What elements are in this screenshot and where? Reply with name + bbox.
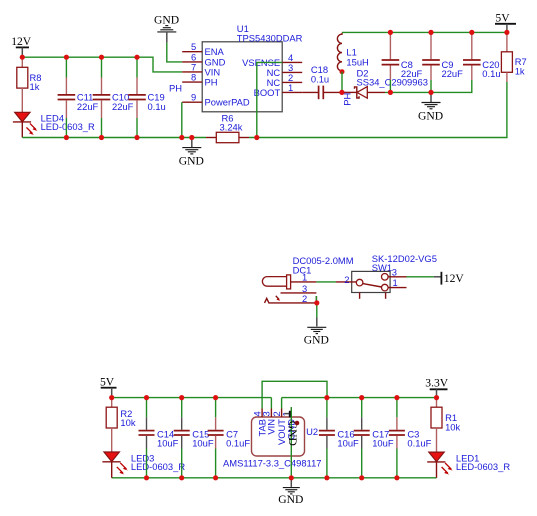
svg-text:1k: 1k <box>30 81 40 92</box>
resistor R2 <box>106 398 136 452</box>
U2 pin 4 TAB <box>251 409 267 437</box>
svg-text:GND: GND <box>179 154 204 167</box>
wire U2 VOUT up <box>281 398 283 409</box>
svg-text:2: 2 <box>302 293 307 304</box>
capacitor C3 <box>389 398 432 478</box>
wire VSENSE rail to R7 <box>249 82 507 138</box>
svg-text:12V: 12V <box>11 35 32 48</box>
svg-text:2: 2 <box>344 274 349 285</box>
svg-text:BOOT: BOOT <box>254 87 281 98</box>
wire VSENSE feedback <box>257 62 282 137</box>
capacitor C14 <box>139 398 179 478</box>
svg-text:15uH: 15uH <box>346 57 368 68</box>
U2 pin 3 VIN <box>261 409 277 435</box>
wire L1 to PH node <box>341 72 343 93</box>
svg-text:0.1uF: 0.1uF <box>407 438 431 449</box>
wire 12V rail top-left <box>22 57 182 72</box>
svg-text:U2: U2 <box>306 426 318 437</box>
svg-text:LED-0603_R: LED-0603_R <box>41 121 95 132</box>
junction L1 bottom <box>340 69 345 74</box>
junction dots bottom section <box>109 395 114 400</box>
svg-text:10k: 10k <box>445 421 460 432</box>
U1 pin 9 PowerPAD <box>182 92 250 108</box>
svg-text:0.1uF: 0.1uF <box>226 438 250 449</box>
wire PowerPAD to ground rail <box>181 102 183 137</box>
switch SW1 SK-12D02-VG5 <box>336 253 437 299</box>
U1 pin 1 BOOT <box>254 82 303 98</box>
node PH label (rotated) <box>341 93 352 106</box>
capacitor C11 <box>58 57 99 137</box>
capacitor C18 <box>302 64 342 99</box>
node 12V flag middle <box>434 272 465 285</box>
junction DC1 pin2 <box>314 300 319 305</box>
resistor R8 <box>17 57 42 112</box>
wire GND flag to U1 pin6 <box>167 43 182 62</box>
wire 5V input rail bottom section <box>112 397 272 399</box>
ground flag GND above U1 <box>154 14 179 43</box>
inductor L1 <box>337 33 368 71</box>
svg-text:0.1u: 0.1u <box>482 68 500 79</box>
capacitor C9 <box>422 32 463 92</box>
svg-text:10uF: 10uF <box>157 438 179 449</box>
resistor R6 <box>206 112 249 142</box>
svg-text:9: 9 <box>191 92 196 103</box>
svg-text:10uF: 10uF <box>372 438 394 449</box>
svg-text:22uF: 22uF <box>77 101 99 112</box>
regulator U2 AMS1117-3.3 body <box>223 417 322 468</box>
wire 5V output rail <box>342 31 507 33</box>
capacitor C15 <box>174 398 214 478</box>
capacitor C10 <box>93 57 134 137</box>
svg-text:GND: GND <box>154 14 179 27</box>
U2 pin 2 VOUT <box>271 409 287 446</box>
ground flag GND middle <box>304 318 329 347</box>
U1 pin 2 NC <box>267 72 303 88</box>
U1 pin 8 PH <box>169 72 218 94</box>
ground flag GND below U2 <box>278 478 303 506</box>
capacitor C17 <box>354 398 394 478</box>
svg-text:8: 8 <box>191 72 196 83</box>
svg-text:10uF: 10uF <box>337 438 359 449</box>
svg-text:GND: GND <box>304 334 329 347</box>
svg-text:10uF: 10uF <box>192 438 214 449</box>
svg-text:0.1u: 0.1u <box>311 73 329 84</box>
capacitor C19 <box>128 57 166 137</box>
ground flag GND at U2 pin1 (rotated) <box>284 411 299 446</box>
junction dots top section <box>20 55 25 60</box>
svg-text:1: 1 <box>288 82 293 93</box>
node 5V flag top-right <box>495 11 516 32</box>
svg-text:3.24k: 3.24k <box>220 121 243 132</box>
wire U2 GND down through body <box>290 407 292 478</box>
svg-text:GND: GND <box>278 493 303 506</box>
node 5V flag bottom-left <box>100 376 117 398</box>
svg-text:22uF: 22uF <box>401 68 423 79</box>
svg-text:1: 1 <box>393 277 398 288</box>
wire U2 VIN up <box>270 398 272 409</box>
U1 pin 6 GND <box>182 51 225 67</box>
wire output gnd line <box>385 80 472 92</box>
op-amp U1 TPS5430DDAR body <box>202 23 302 112</box>
U1 pin 4 VSENSE <box>242 52 302 68</box>
U1 pin 5 ENA <box>182 41 224 57</box>
wire DC1 ground drop <box>316 303 318 318</box>
wire 3.3V output rail bottom section <box>282 397 437 399</box>
diode D2 SS34 (schottky) <box>342 67 428 98</box>
svg-text:LED-0603_R: LED-0603_R <box>131 461 185 472</box>
ground flag GND below C9 <box>418 92 443 122</box>
wire ground rail bottom-left <box>22 137 206 139</box>
svg-text:LED-0603_R: LED-0603_R <box>456 461 510 472</box>
svg-text:3.3V: 3.3V <box>425 376 448 389</box>
LED LED3 <box>102 452 185 478</box>
connector DC1 DC005-2.0MM <box>262 255 353 304</box>
svg-text:12V: 12V <box>444 272 465 285</box>
svg-text:TPS5430DDAR: TPS5430DDAR <box>237 33 303 44</box>
svg-text:5V: 5V <box>495 11 510 24</box>
resistor R1 <box>431 398 461 453</box>
svg-text:PowerPAD: PowerPAD <box>205 97 250 108</box>
wire DC1 pin1 to SW1 pin2 <box>316 281 336 283</box>
capacitor C16 <box>319 398 359 478</box>
node 3.3V flag bottom-right <box>425 376 448 397</box>
svg-text:AMS1117-3.3_C498117: AMS1117-3.3_C498117 <box>223 457 322 468</box>
svg-text:PH: PH <box>205 77 218 88</box>
resistor R7 <box>501 32 526 82</box>
svg-text:22uF: 22uF <box>112 101 134 112</box>
capacitor C20 <box>463 32 501 80</box>
svg-text:0.1u: 0.1u <box>148 101 166 112</box>
svg-text:3: 3 <box>392 267 397 278</box>
U2 pin 1 GND <box>281 409 297 440</box>
svg-text:1k: 1k <box>515 65 525 76</box>
U1 pin 7 VIN <box>182 61 220 77</box>
svg-text:GND: GND <box>418 109 443 122</box>
svg-text:PH: PH <box>169 83 182 94</box>
svg-text:10k: 10k <box>120 417 135 428</box>
svg-text:22uF: 22uF <box>442 68 464 79</box>
svg-text:5V: 5V <box>100 376 115 389</box>
LED LED4 <box>13 112 95 137</box>
wire SW1 pin3 to 12V flag <box>407 276 434 278</box>
LED LED1 <box>427 452 510 478</box>
U1 pin 3 NC <box>267 62 303 78</box>
node 12V flag top-left <box>11 35 32 57</box>
ground flag GND below U1 <box>179 138 204 168</box>
wire ground rail bottom section <box>112 477 437 479</box>
capacitor C7 <box>208 398 251 478</box>
capacitor C8 <box>382 32 423 92</box>
svg-text:1: 1 <box>302 272 307 283</box>
wire U2 TAB loop to output rail <box>262 381 327 408</box>
